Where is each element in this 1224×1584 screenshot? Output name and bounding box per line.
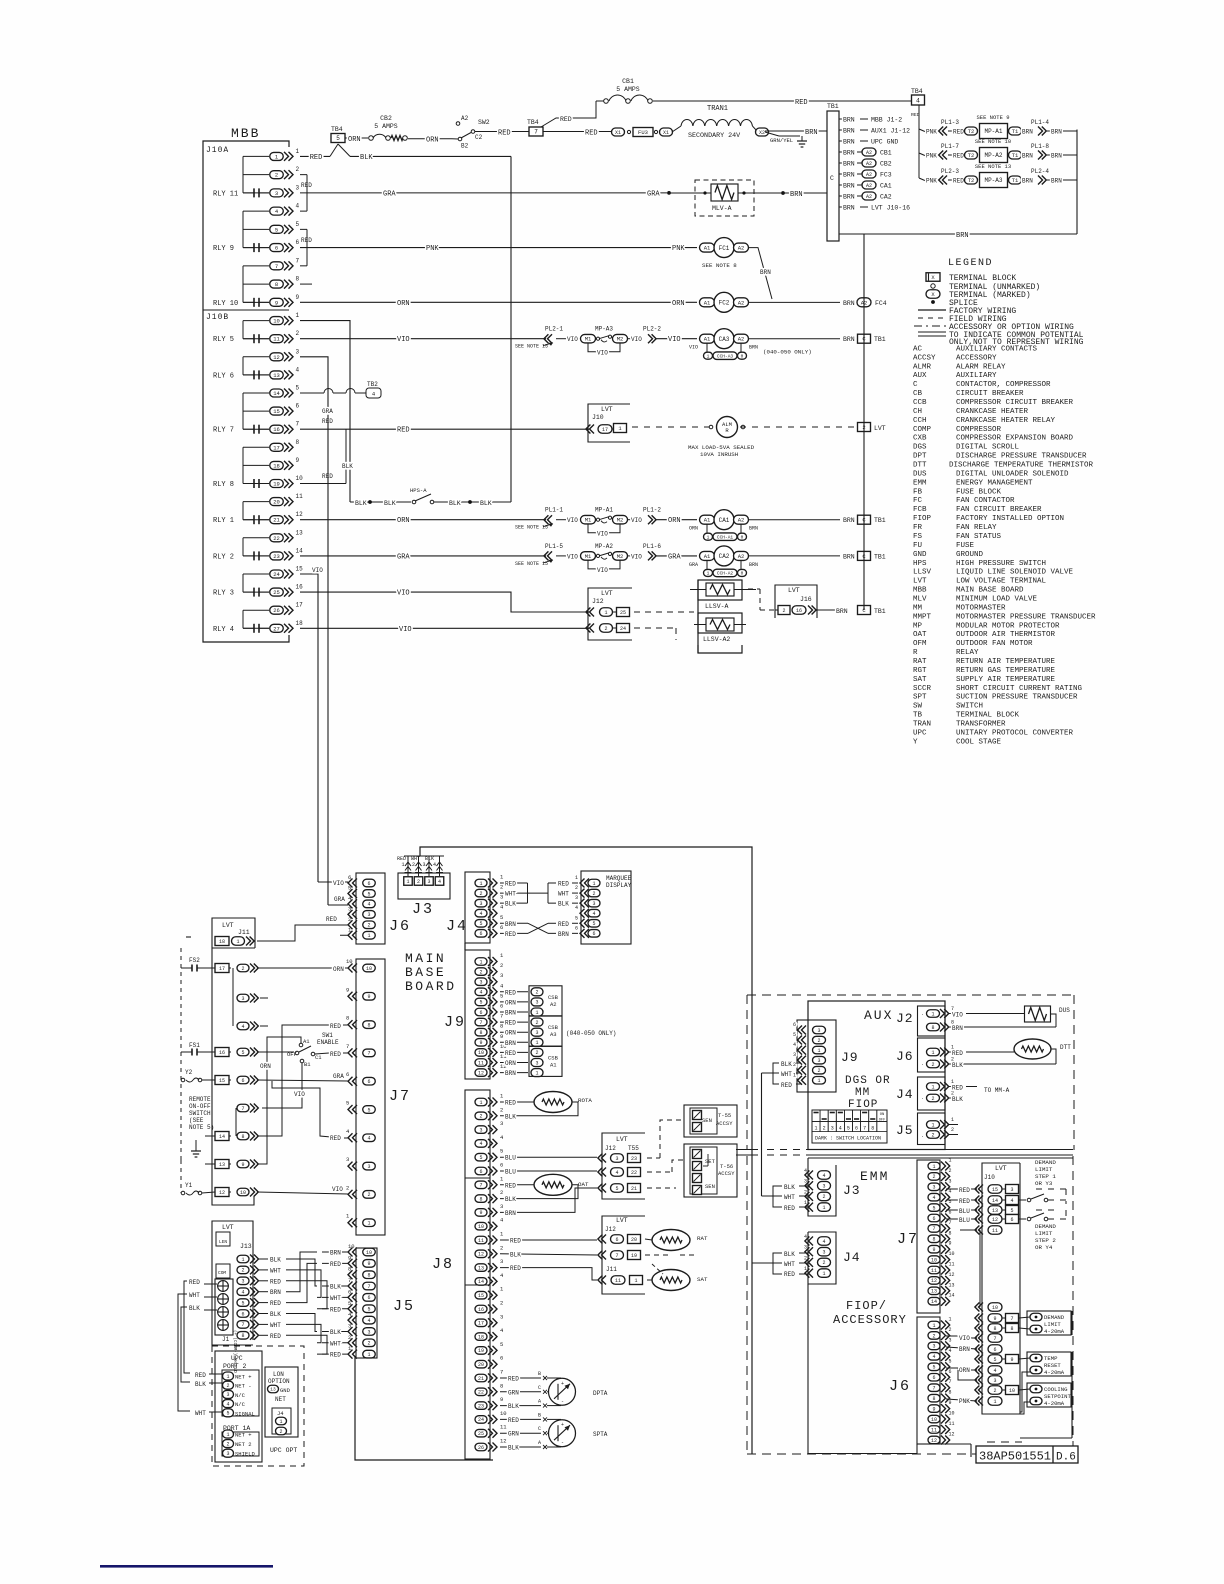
wire RED from MBB pin1 to terminal TB4-5: [300, 144, 350, 162]
svg-text:OPTION: OPTION: [268, 1378, 290, 1385]
terminal block TB1 strip: [827, 103, 839, 241]
svg-text:8: 8: [500, 1023, 503, 1030]
right bracket lines: [1020, 1311, 1072, 1438]
svg-text:3: 3: [346, 1156, 349, 1163]
wire RED TB4-7 to fuse FU3: [543, 130, 611, 138]
svg-text:27: 27: [273, 625, 280, 632]
svg-text:11: 11: [273, 336, 280, 343]
svg-text:7: 7: [932, 1386, 935, 1392]
MBB pin J10B-6 (pin 15): [243, 403, 300, 416]
svg-text:MOTORMASTER: MOTORMASTER: [956, 604, 1006, 612]
svg-text:(040-050 ONLY): (040-050 ONLY): [763, 349, 812, 356]
svg-text:14: 14: [992, 1198, 998, 1204]
svg-text:23: 23: [478, 1403, 484, 1409]
svg-text:6: 6: [296, 239, 300, 246]
svg-text:4: 4: [296, 366, 300, 373]
svg-text:BRN: BRN: [1022, 129, 1033, 136]
svg-text:LOW VOLTAGE TERMINAL: LOW VOLTAGE TERMINAL: [956, 578, 1047, 586]
svg-text:SWITCH: SWITCH: [189, 1110, 211, 1117]
svg-text:SHORT CIRCUIT CURRENT RATING: SHORT CIRCUIT CURRENT RATING: [956, 685, 1083, 693]
svg-text:2: 2: [535, 1020, 538, 1026]
svg-text:TRANSFORMER: TRANSFORMER: [956, 720, 1006, 728]
MBB pin J10B-5 (pin 14): [243, 385, 300, 398]
svg-text:-: -: [561, 1440, 564, 1446]
svg-text:BRN: BRN: [843, 150, 855, 157]
FIOP connector J7 pins 1-14: [897, 1158, 955, 1314]
svg-text:AUX1 J1-12: AUX1 J1-12: [871, 128, 910, 135]
svg-text:3: 3: [500, 1258, 503, 1265]
svg-text:BRN: BRN: [558, 931, 569, 938]
MBB pin J10B-17 (pin 26): [243, 602, 303, 615]
svg-text:2: 2: [604, 626, 607, 632]
wire WHT to J5-2: [322, 1340, 348, 1347]
svg-text:RAT: RAT: [697, 1235, 708, 1242]
svg-text:6: 6: [500, 1003, 503, 1010]
svg-text:3: 3: [804, 1245, 807, 1251]
relay contact RLY2: [213, 551, 269, 561]
svg-text:BRN: BRN: [1051, 178, 1062, 185]
svg-text:LVT: LVT: [616, 1136, 628, 1143]
MBB pin J10B-3 (pin 12): [243, 348, 300, 361]
svg-text:FU3: FU3: [638, 129, 648, 136]
svg-text:1: 1: [236, 939, 239, 945]
TB1 wire BRN to UPC GND: [839, 139, 898, 146]
svg-text:BRN: BRN: [505, 921, 516, 928]
svg-text:10: 10: [931, 1417, 937, 1423]
svg-text:B1: B1: [304, 1061, 311, 1068]
svg-text:2: 2: [226, 1441, 229, 1447]
svg-text:4: 4: [916, 97, 920, 104]
svg-text:FUSE BLOCK: FUSE BLOCK: [956, 488, 1002, 496]
svg-text:2: 2: [817, 1038, 820, 1044]
svg-text:·: ·: [921, 1012, 924, 1018]
switch SW2 terminals A2/B2/C2: [452, 115, 490, 150]
svg-text:TB4: TB4: [527, 119, 539, 126]
svg-text:VIO: VIO: [668, 336, 681, 344]
svg-text:6: 6: [348, 874, 351, 881]
svg-text:B: B: [538, 1412, 541, 1418]
svg-text:REMOTE: REMOTE: [189, 1096, 211, 1103]
svg-text:BLK: BLK: [784, 1251, 795, 1258]
svg-text:ORN: ORN: [505, 999, 516, 1006]
svg-text:2: 2: [822, 1260, 825, 1266]
svg-text:5: 5: [479, 1155, 482, 1161]
svg-text:5: 5: [241, 1050, 244, 1056]
compressor contactor CA1 coil with CCH-A1: [689, 510, 886, 541]
svg-text:BLK: BLK: [508, 1445, 519, 1452]
svg-text:RED: RED: [560, 116, 572, 123]
svg-text:5: 5: [275, 226, 278, 233]
svg-text:5: 5: [479, 921, 482, 927]
svg-text:8: 8: [993, 1326, 996, 1332]
svg-text:2: 2: [535, 1050, 538, 1056]
svg-text:BRN: BRN: [843, 117, 855, 124]
svg-text:WHT: WHT: [505, 891, 516, 898]
svg-text:BRN: BRN: [959, 1346, 970, 1353]
low voltage terminal LVT J16 connector: [775, 585, 886, 618]
svg-text:RED: RED: [952, 1050, 963, 1057]
svg-text:J11: J11: [238, 929, 250, 936]
svg-text:ORN: ORN: [505, 1060, 516, 1067]
svg-text:ORN: ORN: [668, 517, 681, 525]
svg-text:11: 11: [949, 1421, 955, 1427]
terminal block TB4 terminal 5: [331, 126, 345, 143]
svg-text:TB1: TB1: [874, 553, 886, 560]
DGS connector J9 block: [793, 1020, 859, 1092]
svg-text:MAX LOAD-5VA SEALED: MAX LOAD-5VA SEALED: [688, 444, 755, 451]
svg-text:4: 4: [592, 911, 595, 917]
svg-text:4: 4: [932, 1195, 935, 1201]
svg-text:DPTA: DPTA: [593, 1390, 608, 1397]
MBB pin J10A-2 (pin 2): [243, 166, 300, 179]
svg-text:B2: B2: [461, 143, 469, 150]
svg-text:2: 2: [951, 1127, 954, 1133]
svg-text:MMPT: MMPT: [913, 613, 932, 621]
legend symbol terminal unmarked: [931, 283, 1040, 292]
wire BLK to J5-7: [322, 1284, 348, 1291]
svg-text:16: 16: [219, 1050, 225, 1056]
svg-text:18: 18: [296, 620, 304, 627]
svg-text:MBB: MBB: [913, 587, 927, 595]
svg-text:M1: M1: [585, 517, 592, 524]
svg-text:NET -: NET -: [235, 1383, 252, 1390]
relay contact RLY6: [213, 370, 269, 380]
svg-text:7: 7: [346, 1043, 349, 1050]
svg-text:TB1: TB1: [874, 608, 886, 615]
svg-text:SIGNAL: SIGNAL: [235, 1410, 255, 1417]
svg-text:12: 12: [478, 1070, 484, 1076]
svg-text:23: 23: [631, 1156, 637, 1162]
svg-text:TERMINAL BLOCK: TERMINAL BLOCK: [956, 712, 1020, 720]
svg-text:1: 1: [707, 571, 710, 577]
svg-text:15: 15: [478, 1293, 484, 1299]
MBB wire tie pins 12-13: [242, 357, 244, 375]
svg-text:A2: A2: [550, 1001, 557, 1008]
svg-text:7: 7: [367, 1051, 370, 1057]
wire ORN J11-9 up to SW1 A1: [257, 1037, 301, 1164]
svg-text:ORN: ORN: [397, 300, 410, 308]
LVT J13 pin 7 wire WHT: [237, 1320, 281, 1329]
svg-text:13: 13: [949, 1282, 955, 1288]
svg-text:A1: A1: [550, 1061, 557, 1068]
svg-text:GRA: GRA: [322, 408, 333, 415]
svg-text:FAN CONTACTOR: FAN CONTACTOR: [956, 497, 1015, 505]
relay contact RLY1: [213, 515, 269, 525]
svg-text:DTT: DTT: [1060, 1044, 1071, 1051]
svg-text:LEGEND: LEGEND: [948, 258, 993, 269]
svg-text:C: C: [913, 381, 918, 389]
svg-text:1: 1: [406, 879, 409, 885]
wire BLK to J12-7: [500, 1251, 696, 1258]
svg-text:2: 2: [367, 923, 370, 929]
svg-text:RED: RED: [326, 916, 337, 923]
LVT J11 terminal - pin 4: [237, 1022, 258, 1031]
svg-text:1: 1: [592, 881, 595, 887]
remote on-off switch note: [189, 1096, 214, 1131]
svg-text:2: 2: [500, 1244, 503, 1251]
FIOP/ACCESSORY label and outline: [808, 1284, 917, 1454]
svg-text:DISCHARGE PRESSURE TRANSDUCER: DISCHARGE PRESSURE TRANSDUCER: [956, 453, 1087, 461]
svg-text:COMPRESSOR CIRCUIT BREAKER: COMPRESSOR CIRCUIT BREAKER: [956, 399, 1074, 407]
svg-text:RED: RED: [505, 1100, 516, 1107]
svg-text:3: 3: [241, 996, 244, 1002]
main base board outline: [355, 847, 752, 1460]
svg-text:9: 9: [296, 457, 300, 464]
UPC PORT2 terminal 4 N/C: [223, 1400, 246, 1409]
svg-text:SEE NOTE 13: SEE NOTE 13: [975, 163, 1011, 170]
svg-text:+: +: [561, 1422, 564, 1428]
svg-text:FU: FU: [913, 542, 922, 550]
svg-text:5: 5: [226, 1411, 229, 1417]
svg-text:7: 7: [348, 1277, 351, 1284]
svg-text:T-55: T-55: [718, 1112, 731, 1119]
svg-text:3: 3: [348, 1322, 351, 1329]
svg-text:2: 2: [782, 608, 785, 614]
svg-text:2: 2: [823, 1126, 826, 1132]
svg-text:22: 22: [273, 535, 280, 542]
svg-text:BRN: BRN: [805, 129, 818, 137]
svg-text:ORN: ORN: [672, 300, 685, 308]
J11 tie 7-8: [235, 1108, 237, 1136]
DGS/MM FIOP dashed enclosure: [747, 995, 1074, 1150]
svg-text:2: 2: [367, 1341, 370, 1347]
svg-text:1: 1: [949, 1317, 952, 1323]
svg-text:VIO: VIO: [597, 567, 608, 574]
svg-text:ORN: ORN: [505, 1030, 516, 1037]
svg-text:OAT: OAT: [578, 1181, 589, 1188]
outdoor thermistor ROTA circuit: [500, 1092, 592, 1121]
svg-text:MP-A2: MP-A2: [595, 543, 613, 550]
svg-text:2: 2: [500, 1106, 503, 1113]
LVT J11 terminal - pin 7: [237, 1104, 258, 1113]
svg-text:RLY 4: RLY 4: [213, 626, 234, 634]
svg-text:CB1: CB1: [880, 150, 892, 157]
svg-text:14: 14: [931, 1299, 937, 1305]
compressor contactor CA2 coil with CCH-A2: [689, 546, 886, 577]
svg-text:2: 2: [241, 1268, 244, 1274]
svg-text:CCH: CCH: [913, 417, 927, 425]
svg-text:6: 6: [592, 931, 595, 937]
legend title: [948, 258, 993, 269]
svg-text:RED: RED: [505, 1020, 516, 1027]
svg-text:PL2-2: PL2-2: [643, 326, 661, 333]
low voltage terminal LVT J10 (demand limit): [975, 1163, 1020, 1414]
svg-text:1: 1: [804, 1266, 807, 1272]
svg-text:LVT J10-16: LVT J10-16: [871, 205, 910, 212]
svg-text:6: 6: [241, 1078, 244, 1084]
svg-text:3: 3: [427, 879, 430, 885]
BRN common bus to TB1: [863, 234, 865, 610]
svg-text:T1: T1: [1012, 152, 1019, 159]
svg-text:J10: J10: [984, 1174, 995, 1181]
svg-text:BLK: BLK: [952, 1062, 963, 1069]
svg-text:BLU: BLU: [505, 1155, 516, 1162]
svg-text:J4: J4: [277, 1410, 284, 1417]
svg-text:TEMP: TEMP: [1044, 1355, 1058, 1362]
svg-text:1: 1: [931, 1050, 934, 1056]
svg-text:10: 10: [478, 1224, 484, 1230]
svg-text:J11: J11: [606, 1266, 617, 1273]
legend abbreviation list: [913, 345, 1096, 746]
UPC PORT2 terminal 2 NET -: [223, 1381, 252, 1390]
svg-text:3: 3: [500, 1203, 503, 1210]
supply air thermistor SAT: [500, 1264, 708, 1291]
svg-text:17: 17: [296, 602, 304, 609]
svg-text:2: 2: [279, 1429, 282, 1435]
svg-text:6: 6: [793, 1022, 796, 1028]
EMM connector J4: [804, 1232, 861, 1284]
svg-text:6: 6: [296, 403, 300, 410]
svg-text:RLY 10: RLY 10: [213, 300, 238, 308]
MBB wire tie pins 17-19: [242, 447, 244, 483]
svg-text:3: 3: [296, 348, 300, 355]
branch TB4-7 up to CB1: [541, 101, 596, 127]
wire GRA to J6-4: [328, 896, 348, 905]
svg-text:10: 10: [949, 1411, 955, 1417]
outdoor air thermistor OAT circuit: [500, 1174, 597, 1217]
TB1 wire BRN to LVT J10-16: [839, 205, 910, 212]
MBB pin J10B-13 (pin 22): [243, 529, 303, 542]
svg-text:ROTA: ROTA: [578, 1097, 592, 1104]
svg-text:WHT: WHT: [784, 1194, 795, 1201]
LVT J11 terminal 13 pin 9: [215, 1160, 258, 1169]
svg-text:2: 2: [346, 1184, 349, 1191]
svg-text:25: 25: [478, 1431, 484, 1437]
svg-text:7: 7: [615, 1253, 618, 1259]
low voltage terminal LVT J12/J11 lower: [598, 1216, 645, 1294]
svg-text:13: 13: [931, 1289, 937, 1295]
wire BLK to J5-3: [322, 1329, 348, 1336]
svg-text:J6: J6: [889, 1378, 911, 1395]
svg-text:RED: RED: [330, 1051, 341, 1058]
wire GRA PL1-6 to contactor CA2: [655, 553, 697, 561]
svg-text:CSB: CSB: [548, 994, 559, 1001]
svg-text:WHT: WHT: [189, 1292, 200, 1299]
svg-text:7: 7: [863, 1126, 866, 1132]
svg-text:X1: X1: [663, 130, 669, 136]
svg-text:7: 7: [500, 1369, 503, 1376]
svg-text:J7: J7: [389, 1088, 411, 1105]
FIOP connector J6 pins 1-12: [889, 1317, 955, 1445]
svg-text:6: 6: [367, 1295, 370, 1301]
svg-text:RED: RED: [953, 153, 964, 160]
svg-text:5: 5: [575, 915, 578, 921]
svg-text:RED: RED: [505, 931, 516, 938]
svg-text:BRN: BRN: [505, 1070, 516, 1077]
svg-text:4: 4: [822, 1173, 825, 1179]
wire VIO J11-10 to J7-2: [257, 1186, 348, 1194]
wire ORN RLY10 row to fan contactor FC2: [300, 300, 697, 308]
svg-text:1: 1: [707, 534, 710, 540]
svg-text:6: 6: [500, 1162, 503, 1169]
switch SW1 ENABLE/OFF A1 B1 C1: [257, 1032, 348, 1068]
wires BLU to LVT J12/T55: [500, 1155, 597, 1176]
svg-text:9: 9: [932, 1247, 935, 1253]
svg-text:FC1: FC1: [719, 245, 730, 252]
svg-text:STEP 2: STEP 2: [1035, 1237, 1056, 1244]
svg-text:3: 3: [822, 1250, 825, 1256]
note 040-050 only: [566, 1030, 616, 1037]
wire weave J13 to J5: [286, 1252, 327, 1354]
svg-text:11: 11: [949, 1262, 955, 1268]
svg-text:3: 3: [535, 1060, 538, 1066]
svg-text:8: 8: [479, 1030, 482, 1036]
svg-text:RAT: RAT: [913, 658, 927, 666]
DGS/MM FIOP board outline: [808, 1001, 945, 1150]
svg-text:11: 11: [478, 1060, 484, 1066]
MBB jumper tie pins 5-7 RED: [300, 229, 312, 265]
MBB connector J5 pins 10-1: [348, 1243, 415, 1359]
svg-text:SEE NOTE 15: SEE NOTE 15: [515, 561, 548, 567]
svg-text:6: 6: [479, 1169, 482, 1175]
svg-text:9: 9: [479, 1040, 482, 1046]
svg-text:MLV: MLV: [913, 595, 927, 603]
svg-text:+: +: [561, 1381, 564, 1387]
svg-text:C: C: [538, 1426, 541, 1432]
relay contact RLY9: [213, 243, 269, 253]
svg-text:3: 3: [226, 1392, 229, 1398]
svg-text:FS: FS: [913, 533, 923, 541]
circuit breaker CB1 5 AMPS: [596, 78, 652, 103]
svg-text:2: 2: [817, 1068, 820, 1074]
svg-text:TB1: TB1: [827, 103, 839, 110]
svg-text:8: 8: [1010, 1326, 1013, 1332]
svg-text:1: 1: [932, 1323, 935, 1329]
svg-text:RED: RED: [505, 881, 516, 888]
svg-text:UPC: UPC: [913, 729, 927, 737]
svg-text:FAN STATUS: FAN STATUS: [956, 533, 1002, 541]
MBB pin J10B-1 (pin 10): [243, 312, 300, 325]
svg-text:SEN: SEN: [702, 1117, 712, 1124]
svg-text:FACTORY INSTALLED OPTION: FACTORY INSTALLED OPTION: [956, 515, 1064, 523]
compressor contactor CA3 coil with CCH-A3: [689, 329, 886, 360]
svg-text:BLK: BLK: [360, 154, 373, 162]
svg-text:J9: J9: [444, 1014, 466, 1031]
svg-text:10: 10: [478, 1050, 484, 1056]
wires J7 to LVT J10: [946, 1187, 977, 1230]
svg-text:6: 6: [855, 1126, 858, 1132]
svg-text:8: 8: [241, 1333, 244, 1339]
svg-text:2: 2: [296, 330, 300, 337]
low voltage terminal LVT J12/T55: [598, 1133, 645, 1199]
svg-text:FC2: FC2: [719, 299, 730, 306]
wire RED to J5-9: [322, 1261, 348, 1268]
svg-text:3: 3: [592, 901, 595, 907]
svg-text:4: 4: [479, 911, 482, 917]
svg-text:12: 12: [992, 1217, 998, 1223]
svg-text:3: 3: [500, 1313, 503, 1320]
dashed option wiring J12 to LLSV: [634, 612, 694, 640]
svg-text:BRN: BRN: [505, 1010, 516, 1017]
svg-text:OFF: OFF: [879, 1119, 885, 1123]
svg-text:5: 5: [348, 1300, 351, 1307]
svg-text:WHT: WHT: [195, 1410, 206, 1417]
svg-text:J12: J12: [605, 1145, 616, 1152]
ground symbol GRN/YEL: [765, 132, 807, 147]
svg-text:4: 4: [822, 1239, 825, 1245]
svg-text:17: 17: [478, 1321, 484, 1327]
svg-text:1: 1: [535, 1040, 538, 1046]
svg-text:FC3: FC3: [880, 172, 892, 179]
svg-text:LVT: LVT: [222, 922, 234, 929]
svg-text:SETPOINT: SETPOINT: [1044, 1393, 1071, 1400]
svg-text:FR: FR: [913, 524, 923, 532]
svg-text:A2: A2: [866, 172, 872, 178]
svg-text:OAT: OAT: [913, 631, 927, 639]
svg-text:2: 2: [793, 1062, 796, 1068]
svg-text:A2: A2: [738, 245, 745, 252]
svg-text:BLK: BLK: [270, 1311, 281, 1318]
